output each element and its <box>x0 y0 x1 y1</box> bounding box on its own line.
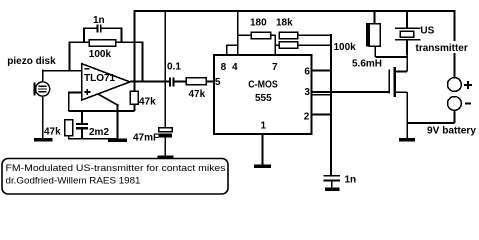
svg-text:2m2: 2m2 <box>89 127 109 138</box>
svg-text:FM-Modulated US-transmitter f: FM-Modulated US-transmitter for contact … <box>6 163 226 174</box>
svg-text:0.1: 0.1 <box>167 61 181 72</box>
svg-text:180: 180 <box>250 18 267 29</box>
svg-text:piezo disk: piezo disk <box>7 56 56 67</box>
svg-text:47k: 47k <box>189 89 206 100</box>
svg-text:7: 7 <box>272 62 278 73</box>
svg-text:5.6mH: 5.6mH <box>352 58 382 69</box>
svg-text:US: US <box>420 26 434 37</box>
svg-text:9V battery: 9V battery <box>427 126 476 137</box>
svg-text:18k: 18k <box>276 18 293 29</box>
svg-text:100k: 100k <box>334 42 357 53</box>
svg-text:4: 4 <box>232 62 238 73</box>
svg-text:1n: 1n <box>93 15 105 26</box>
svg-text:5: 5 <box>215 77 221 88</box>
svg-text:8: 8 <box>221 62 227 73</box>
svg-text:2: 2 <box>304 112 310 123</box>
svg-text:1: 1 <box>261 121 267 132</box>
svg-text:47k: 47k <box>44 127 61 138</box>
svg-text:47mF: 47mF <box>133 133 159 144</box>
svg-text:100k: 100k <box>89 49 112 60</box>
svg-text:3: 3 <box>304 87 310 98</box>
svg-text:TLO71: TLO71 <box>84 73 116 84</box>
svg-text:dr.Godfried-Willem RAES 1981: dr.Godfried-Willem RAES 1981 <box>6 176 141 187</box>
svg-text:555: 555 <box>255 93 272 104</box>
svg-text:6: 6 <box>304 67 310 78</box>
svg-text:transmitter: transmitter <box>416 43 468 54</box>
svg-text:C-MOS: C-MOS <box>248 80 278 91</box>
svg-text:1n: 1n <box>345 175 357 186</box>
svg-text:47k: 47k <box>139 97 156 108</box>
